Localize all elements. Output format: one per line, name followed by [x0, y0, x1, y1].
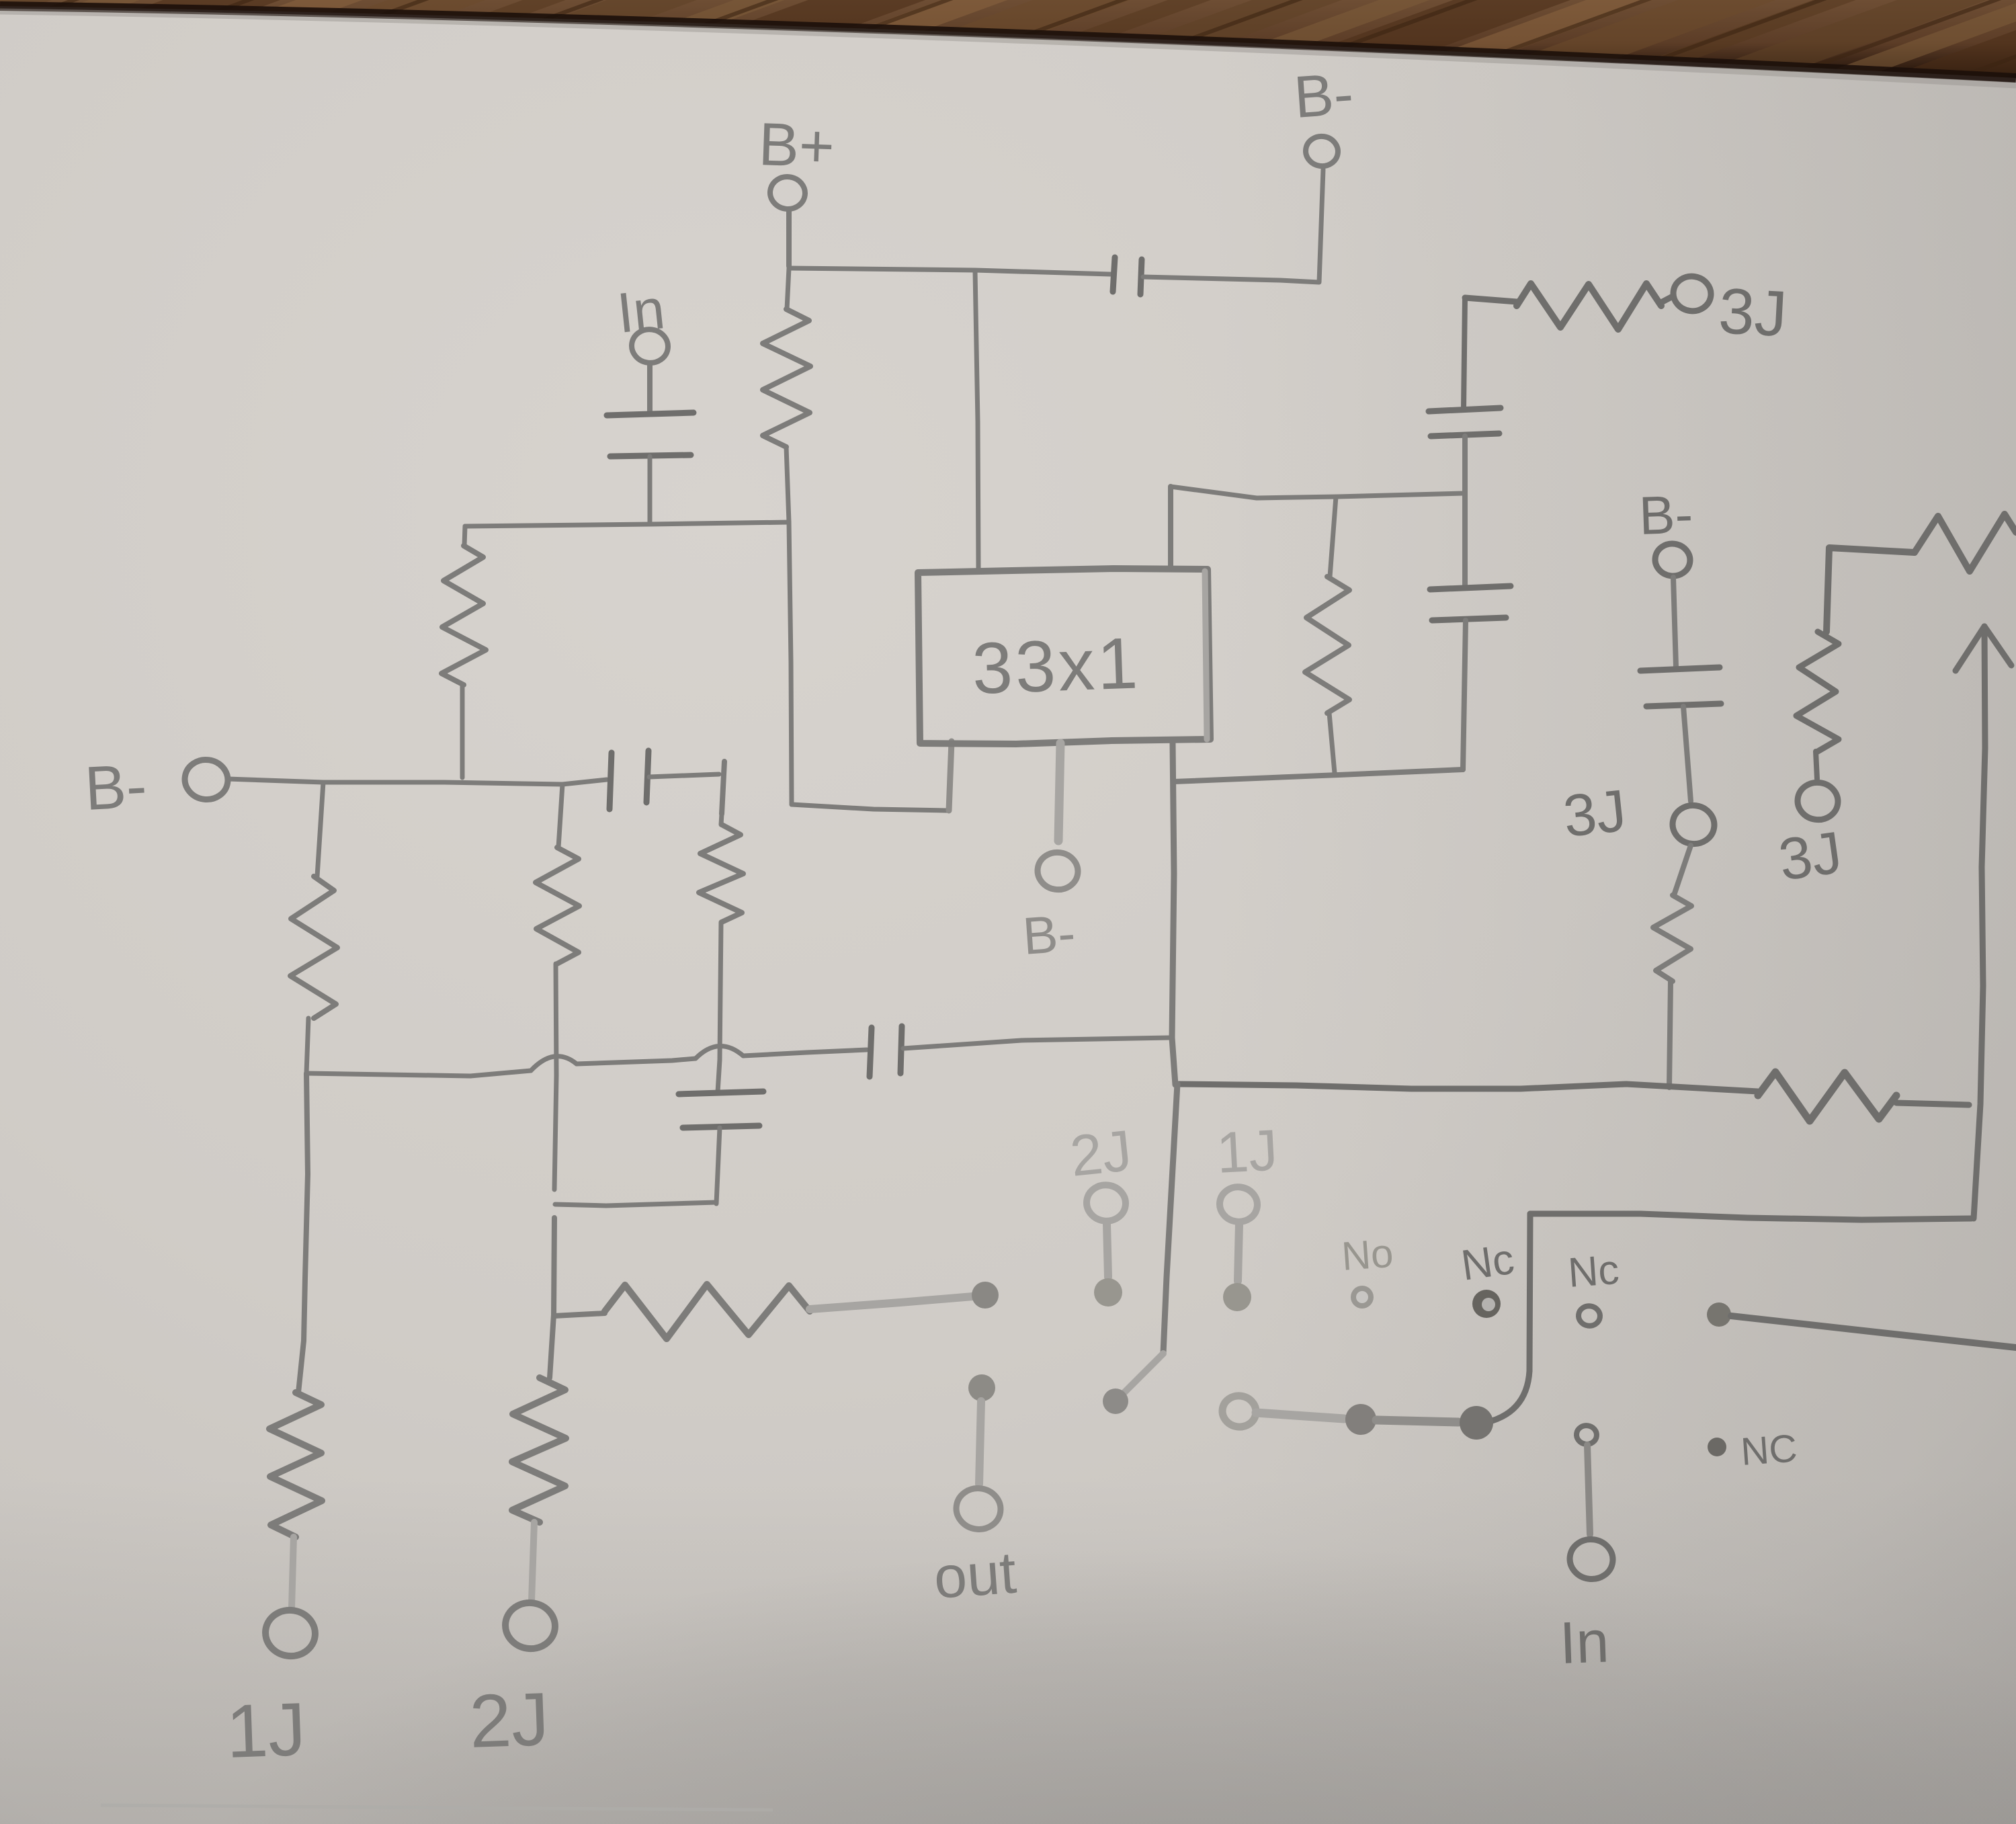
- wire H2 left: [306, 1071, 531, 1076]
- resistor R12: [1796, 632, 1839, 779]
- wire capacitor C2 to B- terminal: [1143, 169, 1323, 282]
- resistor R2: [442, 526, 486, 778]
- jumper 2J: [1067, 1118, 1134, 1307]
- wire H5: [1530, 1214, 1972, 1220]
- wire V2 mid: [550, 1218, 554, 1378]
- wood table background top: [0, 0, 2016, 101]
- wire box pin top-right: [1168, 487, 1173, 568]
- contact Out pole: [972, 1282, 999, 1309]
- wire box pin bottom-right V4: [1172, 743, 1175, 1085]
- contact Nc right: [1566, 1247, 1620, 1327]
- wire C4 to V4: [903, 1038, 1170, 1048]
- wire V9 lower: [1463, 620, 1466, 770]
- wire B+ stub down: [786, 211, 792, 266]
- svg-text:B-: B-: [83, 751, 149, 823]
- resistor R9: [1305, 497, 1349, 773]
- wire H1 B- rail: [228, 779, 607, 784]
- wire B+ node horizontal to capacitor C2: [789, 268, 1111, 274]
- wire C3 to node V3: [649, 774, 719, 777]
- contact pole right: [1707, 1302, 2016, 1348]
- svg-text:2J: 2J: [1067, 1118, 1134, 1189]
- svg-text:1J: 1J: [224, 1687, 307, 1774]
- wire V9 upper: [1464, 298, 1465, 407]
- terminal 2J: [468, 1600, 558, 1764]
- svg-text:out: out: [931, 1539, 1018, 1611]
- terminal B- top: [1292, 60, 1355, 168]
- wire right corner: [1826, 548, 1915, 632]
- wire H2 hop over V3: [696, 1046, 743, 1059]
- svg-text:B+: B+: [757, 111, 835, 181]
- wire V5: [1103, 1084, 1177, 1414]
- capacitor C5: [679, 1091, 763, 1128]
- resistor R4: [536, 784, 579, 1190]
- contact row: [1220, 1394, 1493, 1440]
- wire rail top: [1171, 487, 1464, 498]
- resistor R14: [1758, 1072, 1969, 1121]
- resistor R3: [290, 782, 337, 1073]
- wire H2 hop over V2: [531, 1056, 577, 1071]
- wire box pin bottom-center: [1058, 743, 1060, 841]
- wire arrow: [1956, 626, 2011, 1218]
- wire B+ rail down-left: [789, 522, 792, 804]
- wire C8 to 3J: [1683, 706, 1691, 801]
- paper bottom edge: [101, 1805, 773, 1810]
- svg-text:B-: B-: [1638, 484, 1693, 546]
- svg-text:3J: 3J: [1717, 275, 1789, 350]
- wire B- mid stub: [1673, 577, 1676, 667]
- wire C1 to node: [648, 456, 653, 524]
- resistor R8: [554, 1284, 973, 1339]
- terminal 3J mid: [1560, 777, 1717, 849]
- contact NC right: [1708, 1426, 1798, 1474]
- svg-text:3J: 3J: [1775, 819, 1846, 893]
- resistor R10 03J: [1465, 274, 1789, 351]
- svg-text:NC: NC: [1739, 1426, 1798, 1474]
- capacitor C6: [1429, 408, 1501, 436]
- capacitor C1: [607, 413, 694, 456]
- svg-text:B-: B-: [1292, 60, 1355, 130]
- svg-text:1J: 1J: [1215, 1118, 1279, 1186]
- wire H4: [1177, 1084, 1758, 1091]
- resistor R6: [269, 1393, 322, 1608]
- svg-text:No: No: [1340, 1231, 1394, 1279]
- wire down to box pin (top-left): [975, 271, 978, 568]
- capacitor C8: [1640, 667, 1721, 706]
- wire In stub: [647, 365, 653, 414]
- svg-text:In: In: [1558, 1608, 1610, 1676]
- resistor R5: [699, 814, 743, 1092]
- svg-text:2J: 2J: [468, 1677, 550, 1764]
- terminal B- mid: [1638, 484, 1693, 578]
- resistor R7: [512, 1378, 566, 1601]
- wire B+ rail bottom to box pin: [792, 741, 952, 811]
- terminal B- under box: [1021, 849, 1081, 965]
- wire rail bottom: [1174, 770, 1463, 782]
- wire H2 mid: [577, 1059, 696, 1064]
- resistor R1: [763, 268, 810, 522]
- box U1 33x1: [918, 569, 1210, 744]
- resistor R11: [1653, 845, 1691, 1087]
- contact No: [1340, 1231, 1394, 1309]
- capacitor C7: [1430, 586, 1511, 620]
- wire V1 lower: [298, 1073, 308, 1393]
- wire node horizontal (B+ rail to R2): [465, 522, 789, 526]
- wire H2 to C4: [743, 1050, 867, 1056]
- svg-text:Nc: Nc: [1458, 1235, 1517, 1290]
- wire V3 top bar: [722, 761, 724, 814]
- jumper Out: [931, 1374, 1018, 1611]
- terminal 1J: [224, 1607, 318, 1774]
- wire C5 to H3: [716, 1128, 720, 1204]
- wire V9 mid: [1462, 436, 1468, 586]
- svg-text:Nc: Nc: [1566, 1247, 1620, 1296]
- svg-text:33x1: 33x1: [971, 622, 1142, 709]
- terminal In: [614, 277, 670, 365]
- wire V6 to contact: [1482, 1214, 1530, 1423]
- resistor R13: [1915, 514, 2016, 571]
- contact Nc center: [1458, 1235, 1517, 1318]
- terminal 3J right: [1775, 780, 1846, 893]
- terminal B- left: [83, 751, 230, 823]
- svg-text:3J: 3J: [1560, 777, 1630, 849]
- terminal B+: [757, 111, 835, 211]
- jumper In: [1558, 1424, 1615, 1676]
- capacitor C4: [870, 1026, 902, 1077]
- svg-text:B-: B-: [1021, 903, 1077, 966]
- jumper 1J: [1215, 1118, 1279, 1311]
- capacitor C3: [610, 751, 648, 809]
- capacitor C2: [1113, 257, 1142, 294]
- wire H3: [555, 1202, 716, 1206]
